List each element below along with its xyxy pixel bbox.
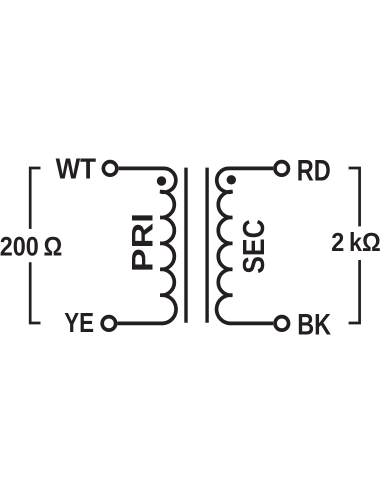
terminal RD [275,162,289,176]
wire BK to secondary bottom [230,322,273,326]
phase dot secondary [227,175,236,184]
svg-text:PRI: PRI [126,213,159,272]
terminal WT [103,162,117,176]
svg-text:YE: YE [64,307,94,338]
terminal BK [275,317,289,331]
svg-text:200 Ω: 200 Ω [0,231,62,261]
svg-text:WT: WT [56,154,97,186]
wire YE to primary bottom [118,322,164,326]
transformer T1 primary winding [160,168,176,323]
svg-text:RD: RD [297,154,331,187]
phase dot primary [157,176,166,185]
wire RD to secondary top [229,167,274,171]
terminal YE [102,317,116,331]
svg-text:BK: BK [297,309,331,342]
svg-text:SEC: SEC [237,219,271,274]
svg-text:2 kΩ: 2 kΩ [331,227,381,257]
transformer T1 secondary winding [217,168,233,323]
transformer core [186,168,207,323]
impedance bracket left (200 ohm) [30,168,40,323]
impedance bracket right (2 kohm) [349,168,360,323]
wire WT to primary top [119,167,164,171]
